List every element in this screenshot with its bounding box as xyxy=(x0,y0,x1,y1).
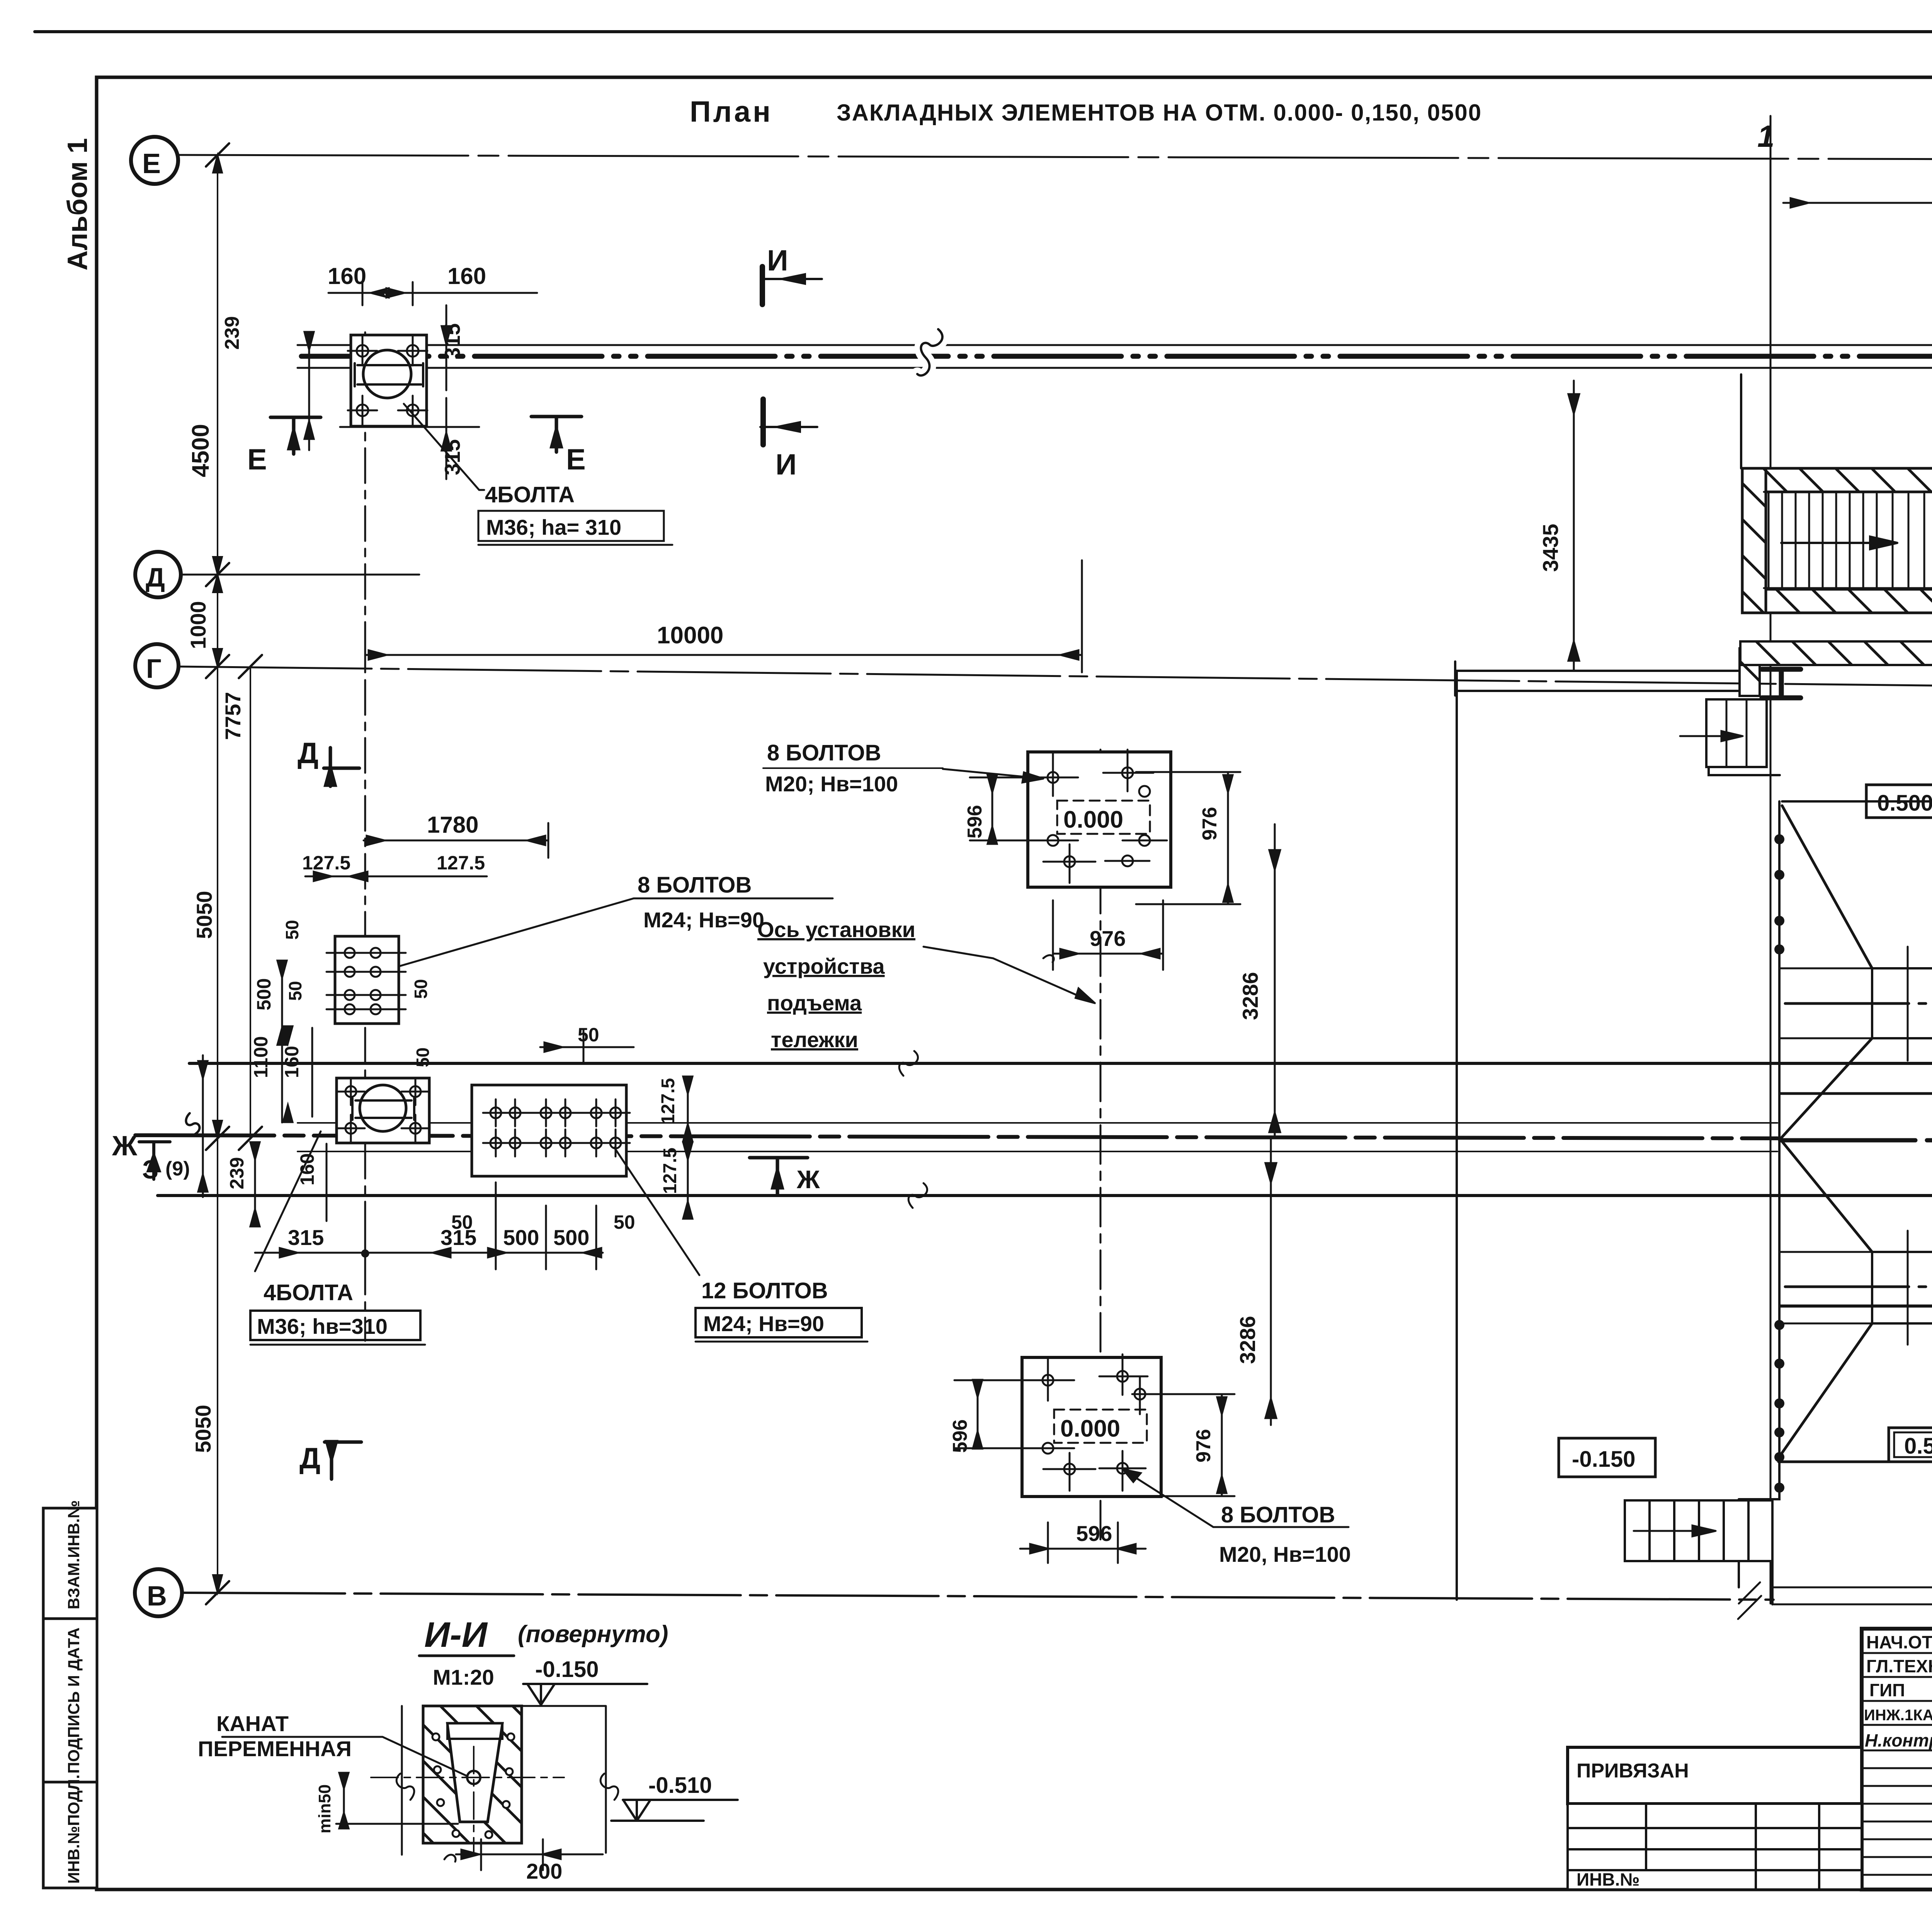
svg-text:1100: 1100 xyxy=(250,1036,272,1078)
hopper middle X lattice xyxy=(1780,1038,1932,1252)
svg-text:50: 50 xyxy=(411,979,431,999)
anchor plate E (4 bolts M36) xyxy=(351,335,427,426)
Zh axis pointer mark right xyxy=(750,1158,808,1194)
grid axis E line xyxy=(179,155,1932,159)
svg-text:50: 50 xyxy=(285,981,305,1001)
svg-text:1000: 1000 xyxy=(186,601,210,649)
svg-text:500: 500 xyxy=(553,1225,589,1250)
svg-text:Е: Е xyxy=(566,443,586,476)
svg-text:Г: Г xyxy=(146,653,162,684)
svg-text:тележки: тележки xyxy=(771,1027,858,1052)
svg-text:0.000: 0.000 xyxy=(1060,1415,1120,1442)
left small table xyxy=(1568,1804,1862,1889)
svg-text:50: 50 xyxy=(451,1211,473,1233)
svg-text:596: 596 xyxy=(964,805,986,838)
hopper top row diagonals xyxy=(1782,790,1932,968)
plate E circle xyxy=(363,350,411,398)
svg-text:НАЧ.ОТД: НАЧ.ОТД xyxy=(1866,1632,1932,1652)
dim 160 160 xyxy=(328,288,537,298)
svg-text:ПЕРЕМЕННАЯ: ПЕРЕМЕННАЯ xyxy=(198,1736,352,1761)
svg-text:З: З xyxy=(142,1155,159,1184)
svg-text:0.000: 0.000 xyxy=(1063,806,1123,833)
plate E bolts xyxy=(348,336,427,425)
svg-text:1: 1 xyxy=(1757,119,1775,153)
right dim line of trough xyxy=(522,1706,618,1853)
label 8 bolts M20 upper xyxy=(943,769,1043,782)
svg-text:160: 160 xyxy=(281,1046,303,1078)
svg-text:3286: 3286 xyxy=(1238,972,1262,1020)
svg-text:М1:20: М1:20 xyxy=(433,1665,494,1689)
Zh wave break xyxy=(186,1113,199,1134)
svg-text:50: 50 xyxy=(282,920,302,940)
label 4 bolts M36 lower xyxy=(255,1131,321,1271)
svg-text:239: 239 xyxy=(226,1157,248,1189)
svg-text:5050: 5050 xyxy=(192,891,216,939)
svg-text:М20; Нв=100: М20; Нв=100 xyxy=(765,772,898,796)
rail wave break xyxy=(917,329,942,376)
plate Zh circle xyxy=(360,1085,406,1131)
label 8 bolts M20 lower xyxy=(1128,1473,1349,1527)
svg-text:160: 160 xyxy=(328,263,366,289)
svg-text:И: И xyxy=(767,244,788,277)
svg-text:ПРИВЯЗАН: ПРИВЯЗАН xyxy=(1577,1760,1689,1782)
svg-text:Д: Д xyxy=(298,737,318,770)
svg-text:ВЗАМ.ИНВ.№: ВЗАМ.ИНВ.№ xyxy=(65,1500,83,1609)
left margin boxes xyxy=(43,1508,97,1619)
min50 dim xyxy=(336,1773,458,1828)
dim 315 top xyxy=(442,305,451,390)
dim 6000 xyxy=(1783,198,1932,207)
title block outer xyxy=(1862,1629,1932,1889)
dim 3435 xyxy=(1568,381,1579,670)
section mark I top xyxy=(760,267,765,304)
svg-text:-0.510: -0.510 xyxy=(648,1773,712,1798)
svg-text:50: 50 xyxy=(578,1024,599,1046)
svg-text:Е: Е xyxy=(247,443,267,476)
signature table rows xyxy=(1862,1653,1932,1875)
12-bolt plate xyxy=(472,1085,626,1176)
hopper field left edge with dots xyxy=(1739,801,1779,1499)
slab edge double line xyxy=(1455,662,1741,696)
text Os ustanovki xyxy=(757,917,915,1052)
svg-text:Д: Д xyxy=(299,1442,320,1475)
section mark I bottom xyxy=(760,399,766,445)
svg-text:ПОДПИСЬ И ДАТА: ПОДПИСЬ И ДАТА xyxy=(65,1628,83,1774)
left dimension chain line xyxy=(217,155,218,1593)
left boundary vertical of pit plan xyxy=(1456,671,1458,1600)
crane rail row E: bottom edge xyxy=(298,367,1932,369)
corridor top second edge (right) xyxy=(1780,1092,1932,1095)
svg-text:315: 315 xyxy=(288,1225,324,1250)
svg-text:976: 976 xyxy=(1192,1429,1215,1463)
upper 8-bolt anchor plate xyxy=(335,936,399,1024)
svg-text:М36; hв=310: М36; hв=310 xyxy=(257,1314,388,1338)
svg-text:ЗАКЛАДНЫХ ЭЛЕМЕНТОВ НА: ЗАКЛАДНЫХ ЭЛЕМЕНТОВ НА ОТМ. 0.000- 0,150… xyxy=(837,100,1482,126)
dim 127.5 pair xyxy=(305,872,487,881)
privyazan box xyxy=(1568,1747,1862,1804)
svg-text:устройства: устройства xyxy=(763,954,885,978)
dim 10000 xyxy=(365,650,1082,660)
hopper bottom row diagonals xyxy=(1779,1323,1932,1462)
svg-text:min50: min50 xyxy=(315,1784,334,1833)
svg-text:КАНАТ: КАНАТ xyxy=(216,1711,289,1736)
section mark D lower xyxy=(325,1442,361,1479)
hopper row A axis xyxy=(1785,1002,1932,1005)
svg-text:160: 160 xyxy=(447,263,486,289)
svg-text:127.5: 127.5 xyxy=(302,852,350,874)
svg-text:976: 976 xyxy=(1199,807,1221,840)
svg-text:И-И: И-И xyxy=(424,1615,488,1655)
grid axis V line xyxy=(183,1593,1774,1600)
I-beam symbol left xyxy=(1762,669,1801,698)
svg-text:М36; hа= 310: М36; hа= 310 xyxy=(486,515,621,539)
svg-text:М24; Нв=90: М24; Нв=90 xyxy=(703,1311,824,1336)
svg-text:-0.150: -0.150 xyxy=(535,1657,599,1682)
wall edge vertical left of stair xyxy=(1740,374,1742,468)
svg-text:ИНЖ.1КАТ: ИНЖ.1КАТ xyxy=(1864,1707,1932,1724)
hopper field horizontal lines xyxy=(1782,800,1932,803)
dim 1780 xyxy=(364,836,548,845)
grid circle V xyxy=(135,1569,182,1616)
svg-text:8 БОЛТОВ: 8 БОЛТОВ xyxy=(638,872,752,898)
label 12 bolts M24 xyxy=(614,1148,699,1275)
section mark D upper xyxy=(324,748,359,786)
bottom-left stair of pit plan xyxy=(1625,1500,1772,1619)
label 8 bolts M24 xyxy=(400,898,833,966)
upper 0.000 plate xyxy=(1028,752,1171,887)
grid axis G line xyxy=(179,667,1932,694)
svg-text:8 БОЛТОВ: 8 БОЛТОВ xyxy=(767,740,881,765)
Zh rail thin edges xyxy=(298,1123,1777,1151)
trough centerlines xyxy=(371,1777,564,1778)
svg-text:4БОЛТА: 4БОЛТА xyxy=(485,482,575,507)
chain arrows xyxy=(213,155,222,1593)
svg-text:127.5: 127.5 xyxy=(658,1078,679,1124)
svg-text:239: 239 xyxy=(221,316,243,350)
signature names xyxy=(1864,1632,1932,1750)
anchor plate Zh (4 bolts M36) xyxy=(337,1078,429,1143)
svg-text:500: 500 xyxy=(503,1225,539,1250)
crane rail row E: centerline xyxy=(301,354,1932,359)
svg-text:План: План xyxy=(690,95,773,128)
svg-text:596: 596 xyxy=(1076,1521,1112,1546)
dim 976 below upper plate xyxy=(1053,900,1163,970)
svg-text:В: В xyxy=(147,1581,167,1612)
V axis right double line xyxy=(1774,1587,1932,1604)
corridor top edge xyxy=(189,1062,1932,1065)
grid circle G xyxy=(135,644,179,687)
short chain between corridor lines xyxy=(198,1055,207,1197)
svg-text:Е: Е xyxy=(142,148,161,179)
svg-text:3435: 3435 xyxy=(1538,524,1563,572)
wall L piece xyxy=(1740,648,1760,696)
svg-text:ГИП: ГИП xyxy=(1869,1680,1905,1700)
svg-text:М24; Нв=90: М24; Нв=90 xyxy=(643,908,764,932)
hopper throat rects row B xyxy=(1872,1231,1932,1345)
grid circle D xyxy=(135,552,181,597)
svg-text:315: 315 xyxy=(440,323,464,359)
0.500 box bottom xyxy=(1889,1428,1932,1462)
hopper Zh axis right xyxy=(1780,1138,1932,1143)
-0.150 box left low xyxy=(1559,1438,1655,1477)
svg-text:Ж: Ж xyxy=(112,1131,138,1162)
svg-text:0.500: 0.500 xyxy=(1904,1434,1932,1459)
left dim line of trough xyxy=(396,1706,414,1855)
svg-text:Альбом 1: Альбом 1 xyxy=(62,138,93,270)
wall void circles xyxy=(432,1733,514,1838)
axis 1 vertical line xyxy=(1770,116,1772,1604)
svg-text:500: 500 xyxy=(253,978,275,1010)
grid circle E xyxy=(131,137,178,184)
dim 3286 lower xyxy=(1265,1138,1276,1425)
dim 596 below lower plate xyxy=(1020,1522,1146,1563)
svg-text:12 БОЛТОВ: 12 БОЛТОВ xyxy=(701,1278,828,1303)
dim 3286 upper xyxy=(1269,824,1280,1138)
svg-text:50: 50 xyxy=(614,1211,635,1233)
label 4 bolts M36 top xyxy=(404,404,484,490)
svg-text:-0.150: -0.150 xyxy=(1572,1447,1635,1472)
grid axis Zh line xyxy=(135,1135,1777,1138)
plate Zh bolts xyxy=(337,1078,429,1142)
stair direction arrow xyxy=(1781,537,1897,549)
crane rail row E: top edge xyxy=(298,344,1932,346)
svg-text:976: 976 xyxy=(1090,926,1126,951)
svg-text:(повернуто): (повернуто) xyxy=(518,1621,668,1648)
svg-text:8 БОЛТОВ: 8 БОЛТОВ xyxy=(1221,1502,1335,1527)
svg-text:10000: 10000 xyxy=(657,622,723,649)
svg-text:5050: 5050 xyxy=(191,1405,215,1453)
hopper throat rects row A xyxy=(1872,947,1932,1061)
svg-text:ИНВ.№: ИНВ.№ xyxy=(1577,1869,1640,1889)
dim 315 bottom xyxy=(442,398,451,479)
svg-text:127.5: 127.5 xyxy=(660,1148,680,1194)
svg-text:4500: 4500 xyxy=(187,424,214,477)
svg-text:127.5: 127.5 xyxy=(437,852,485,874)
hoist plate centerline xyxy=(1100,750,1102,1544)
cable circle xyxy=(467,1771,480,1784)
lower 0.000 plate xyxy=(1022,1357,1161,1497)
svg-text:4БОЛТА: 4БОЛТА xyxy=(264,1280,353,1305)
svg-text:7757: 7757 xyxy=(221,692,245,740)
section mark E right xyxy=(531,417,582,452)
svg-text:0.500: 0.500 xyxy=(1877,791,1932,816)
corridor bottom edge xyxy=(158,1194,1932,1197)
svg-text:50: 50 xyxy=(413,1048,433,1067)
svg-text:ГЛ.ТЕХН.: ГЛ.ТЕХН. xyxy=(1866,1656,1932,1676)
svg-text:3286: 3286 xyxy=(1235,1316,1260,1364)
grid axis D line xyxy=(182,574,419,576)
svg-text:(9): (9) xyxy=(165,1158,190,1180)
svg-text:ИНВ.№ПОДЛ.: ИНВ.№ПОДЛ. xyxy=(65,1774,83,1884)
column E axis centerline xyxy=(364,332,366,1341)
south wall strip of stair hall xyxy=(1740,641,1932,665)
svg-text:200: 200 xyxy=(526,1859,562,1883)
svg-text:И: И xyxy=(776,448,797,481)
stairwell upper-left: outer walls xyxy=(1742,468,1932,613)
svg-text:1780: 1780 xyxy=(427,812,478,838)
dims 315 315 500 500 bottom xyxy=(255,1248,603,1257)
svg-text:М20, Нв=100: М20, Нв=100 xyxy=(1219,1542,1351,1566)
dim 200 xyxy=(456,1839,603,1870)
Os leader arrow xyxy=(923,947,1090,1001)
trough walls hatched xyxy=(423,1706,522,1843)
svg-text:подъема: подъема xyxy=(767,991,862,1015)
section mark E left xyxy=(270,417,321,454)
hopper row B axis xyxy=(1785,1286,1932,1288)
stair treads xyxy=(1764,492,1932,588)
svg-text:Д: Д xyxy=(146,562,165,592)
chain ticks xyxy=(206,143,262,1604)
small stair below wall xyxy=(1680,699,1780,775)
svg-text:Ось установки: Ось установки xyxy=(757,917,915,942)
trough section outer xyxy=(423,1706,522,1843)
0.500 box top xyxy=(1866,785,1932,818)
svg-text:Н.контр: Н.контр xyxy=(1865,1730,1932,1750)
corridor wave breaks xyxy=(899,1051,918,1076)
svg-text:Ж: Ж xyxy=(796,1165,820,1194)
